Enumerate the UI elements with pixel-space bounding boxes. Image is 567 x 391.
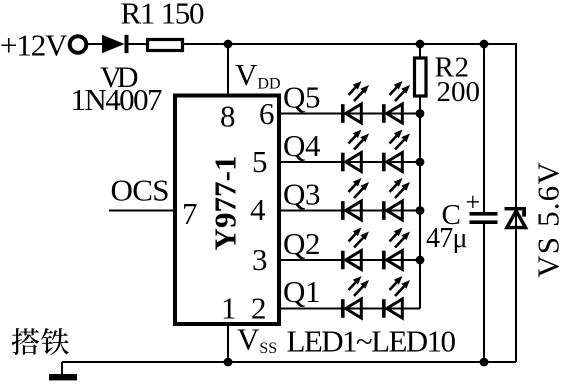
svg-text:Q1: Q1 bbox=[283, 274, 321, 309]
zener diode VS bbox=[505, 207, 527, 228]
svg-text:Q2: Q2 bbox=[283, 226, 321, 261]
LED5 bbox=[341, 178, 369, 220]
ground (chassis) symbol bbox=[49, 374, 77, 380]
node Q4 anode junction bbox=[416, 158, 425, 167]
wire ground stub bbox=[61, 362, 63, 374]
svg-text:VS 5.6V: VS 5.6V bbox=[531, 162, 566, 278]
LED1 bbox=[341, 81, 369, 123]
wire R1-to-right-rail bbox=[184, 43, 516, 45]
wire OCS input bbox=[109, 210, 175, 212]
wire top rail bbox=[87, 43, 102, 45]
node C bottom junction bbox=[480, 358, 489, 367]
svg-text:1N4007: 1N4007 bbox=[71, 82, 163, 117]
wire VSS ground bbox=[227, 324, 229, 362]
resistor R2 bbox=[415, 58, 427, 96]
svg-text:4: 4 bbox=[250, 192, 266, 227]
IC U1 Y977-1 body bbox=[175, 96, 279, 325]
LED3 bbox=[341, 130, 369, 172]
wire VDD supply bbox=[227, 44, 229, 96]
node Q2 anode junction bbox=[416, 256, 425, 265]
svg-text:200: 200 bbox=[437, 76, 481, 108]
svg-text:6: 6 bbox=[259, 96, 275, 131]
wire capacitor top lead bbox=[483, 44, 485, 212]
label ground Chinese (da tie) bbox=[12, 328, 69, 355]
svg-text:R1 150: R1 150 bbox=[121, 0, 205, 31]
wire diode-to-R1 bbox=[128, 43, 147, 45]
node C top junction bbox=[480, 40, 489, 49]
wire R2 top lead bbox=[419, 44, 421, 57]
resistor R1 bbox=[148, 40, 183, 51]
svg-text:3: 3 bbox=[252, 242, 268, 277]
wire capacitor bottom lead bbox=[483, 224, 485, 362]
node Q5 anode junction bbox=[416, 109, 425, 118]
svg-text:Q4: Q4 bbox=[283, 128, 321, 163]
LED6 bbox=[382, 178, 410, 220]
node Q3 anode junction bbox=[416, 206, 425, 215]
svg-text:Y977-1: Y977-1 bbox=[208, 156, 243, 251]
node R2 top junction bbox=[416, 40, 425, 49]
svg-text:8: 8 bbox=[220, 99, 236, 134]
wire Q5 LED row bbox=[279, 113, 420, 115]
LED8 bbox=[382, 228, 410, 270]
terminal +12V input bbox=[70, 36, 87, 53]
wire LED anode rail bbox=[419, 97, 421, 309]
LED10 bbox=[382, 276, 410, 318]
capacitor C plates bbox=[470, 212, 498, 224]
svg-text:+: + bbox=[466, 187, 481, 216]
wire Q4 LED row bbox=[279, 161, 420, 163]
wire Q2 LED row bbox=[279, 259, 420, 261]
svg-text:2: 2 bbox=[251, 291, 267, 326]
node VSS junction bbox=[224, 358, 233, 367]
svg-text:Q3: Q3 bbox=[283, 177, 321, 212]
LED7 bbox=[341, 228, 369, 270]
diode VD bbox=[102, 35, 129, 53]
svg-text:1: 1 bbox=[221, 291, 237, 326]
LED9 bbox=[341, 276, 369, 318]
svg-text:7: 7 bbox=[182, 196, 198, 231]
wire Q1 LED row bbox=[279, 308, 420, 310]
svg-text:OCS: OCS bbox=[111, 173, 170, 208]
svg-text:5: 5 bbox=[252, 144, 268, 179]
LED4 bbox=[382, 130, 410, 172]
LED2 bbox=[382, 81, 410, 123]
wire right rail (vertical) bbox=[515, 43, 517, 362]
svg-text:Q5: Q5 bbox=[283, 80, 321, 115]
svg-text:LED1~LED10: LED1~LED10 bbox=[287, 324, 457, 359]
node VDD junction bbox=[224, 40, 233, 49]
wire Q3 LED row bbox=[279, 210, 420, 212]
wire bottom rail bbox=[62, 361, 516, 363]
svg-text:+12V: +12V bbox=[0, 28, 68, 63]
svg-text:47μ: 47μ bbox=[426, 223, 468, 254]
